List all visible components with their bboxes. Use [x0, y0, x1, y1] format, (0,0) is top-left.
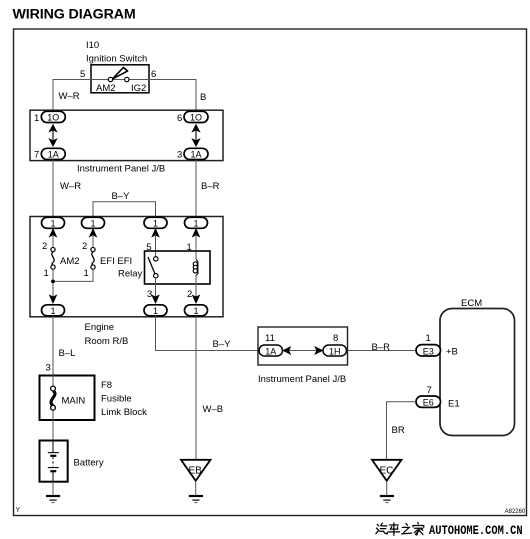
label Relay: [118, 269, 143, 280]
pin 3 of fusible link: [46, 363, 51, 374]
ground symbol EC: [380, 496, 394, 503]
svg-text:Ignition Switch: Ignition Switch: [86, 54, 147, 65]
switch contacts and lever: [108, 67, 129, 81]
wire EB to ground: [195, 481, 197, 495]
svg-text:W–B: W–B: [203, 404, 224, 415]
wire col C down then right to Instrument Panel J/B (B-Y): [156, 316, 259, 351]
svg-text:B: B: [200, 92, 206, 103]
pin 11: [265, 333, 275, 344]
svg-text:E6: E6: [423, 398, 434, 408]
svg-text:AM2: AM2: [60, 256, 80, 267]
pin 1 of relay: [187, 242, 192, 253]
junction block Instrument Panel J/B 2 box: [258, 327, 348, 365]
svg-text:1: 1: [50, 306, 55, 316]
arrow down col D: [193, 295, 200, 303]
svg-text:2: 2: [187, 289, 192, 300]
label +B: [446, 347, 458, 358]
svg-text:6: 6: [151, 69, 156, 80]
svg-text:1: 1: [153, 219, 158, 229]
wire switch pin6 to J/B connector 6 (B): [149, 80, 196, 113]
svg-text:11: 11: [265, 333, 275, 344]
fusible link MAIN symbol: [51, 376, 56, 421]
connector E3: [416, 345, 441, 357]
svg-text:B–R: B–R: [201, 181, 220, 192]
pin 1: [34, 113, 39, 124]
svg-text:1: 1: [90, 219, 95, 229]
pin 1 of AM2 fuse: [44, 268, 49, 279]
svg-text:1: 1: [193, 219, 198, 229]
svg-text:1: 1: [34, 113, 39, 124]
svg-text:1: 1: [153, 306, 158, 316]
relay coil: [193, 259, 198, 276]
svg-text:1: 1: [50, 219, 55, 229]
svg-text:I10: I10: [86, 40, 99, 51]
svg-text:1A: 1A: [190, 150, 201, 160]
svg-text:MAIN: MAIN: [62, 396, 86, 407]
internal link arrows 1A-1H: [283, 347, 322, 354]
arrow up col A: [50, 229, 57, 248]
wire fusible link to battery: [52, 420, 54, 441]
pin 3: [177, 150, 182, 161]
svg-text:E3: E3: [423, 346, 434, 356]
connector 1 (col D bottom): [185, 305, 208, 316]
svg-text:Y: Y: [16, 507, 21, 514]
connector 1A: [259, 345, 283, 357]
svg-text:B–L: B–L: [59, 348, 76, 359]
arrow down col C: [152, 295, 159, 303]
wire AM2 fuse bottom to junction: [52, 269, 54, 296]
connector 1 (col A top): [42, 217, 65, 228]
svg-text:1: 1: [187, 242, 192, 253]
svg-text:1: 1: [193, 306, 198, 316]
label Instrument Panel J/B: [258, 374, 346, 385]
svg-text:BR: BR: [392, 425, 405, 436]
connector 1 (col C bottom): [144, 305, 167, 316]
relay switch contacts: [148, 257, 158, 278]
svg-text:7: 7: [34, 150, 39, 161]
internal link arrow left (1O to 1A): [49, 125, 56, 146]
wire label B-Y: [213, 339, 232, 350]
fuse AM2: [51, 247, 55, 269]
pin 1: [426, 333, 431, 344]
junction block Instrument Panel J/B box: [30, 110, 223, 160]
label ECM: [461, 298, 482, 309]
pin 5: [80, 69, 85, 80]
ground symbol EB: [189, 496, 203, 503]
svg-text:E1: E1: [448, 399, 460, 410]
svg-text:2: 2: [82, 241, 87, 252]
svg-text:Room R/B: Room R/B: [85, 336, 129, 347]
connector 1 (col C top): [144, 217, 167, 228]
svg-text:B–R: B–R: [372, 342, 391, 353]
svg-text:1O: 1O: [47, 113, 59, 123]
wire 1H to ECM E3 (B-R): [348, 350, 417, 352]
label EFI EFI: [100, 256, 132, 267]
label AM2: [96, 83, 116, 94]
ground under battery: [46, 496, 60, 503]
svg-text:1: 1: [426, 333, 431, 344]
svg-text:EFI EFI: EFI EFI: [100, 256, 132, 267]
label AM2: [60, 256, 80, 267]
wire battery to ground: [52, 482, 54, 496]
svg-text:Limk Block: Limk Block: [101, 407, 147, 418]
svg-text:Battery: Battery: [74, 458, 104, 469]
svg-text:EB: EB: [189, 466, 203, 477]
svg-text:Fusible: Fusible: [101, 394, 132, 405]
connector 1 (col B top): [82, 217, 105, 228]
wire relay coil bottom to arrow: [195, 275, 197, 296]
arrow up col D: [193, 229, 200, 259]
label Battery: [74, 458, 104, 469]
pin 3 of relay: [147, 289, 152, 300]
fusible link block F8 box: [40, 376, 95, 421]
ECM box: [440, 309, 515, 436]
svg-text:B–Y: B–Y: [112, 191, 131, 202]
wire switch pin5 to J/B connector 1 (W-R): [53, 80, 91, 113]
svg-text:ECM: ECM: [461, 298, 482, 309]
wire B-Y jumper bracket: [93, 202, 156, 218]
pin 1 of EFI fuse: [84, 268, 89, 279]
svg-text:B–Y: B–Y: [213, 339, 232, 350]
svg-text:W–R: W–R: [59, 91, 80, 102]
svg-text:7: 7: [427, 385, 432, 396]
pin 2 of relay: [187, 289, 192, 300]
junction dot: [51, 280, 55, 284]
wire J/B 1A right down to Engine Room R/B (B-R): [195, 160, 197, 218]
svg-text:1: 1: [84, 268, 89, 279]
battery cells: [48, 441, 59, 482]
title WIRING DIAGRAM: [13, 7, 136, 23]
switch pin line: [91, 79, 149, 81]
wire label B-L: [59, 348, 76, 359]
svg-text:5: 5: [80, 69, 85, 80]
pin 8: [333, 333, 338, 344]
svg-text:WIRING DIAGRAM: WIRING DIAGRAM: [13, 7, 136, 23]
wire EFI fuse bottom to junction: [53, 269, 93, 281]
pin 2 of EFI fuse: [82, 241, 87, 252]
svg-text:Engine: Engine: [85, 322, 115, 333]
arrow up col B: [90, 229, 97, 248]
pin 5 of relay: [146, 242, 151, 253]
svg-text:AUTOHOME.COM.CN: AUTOHOME.COM.CN: [429, 523, 523, 538]
battery box: [40, 441, 68, 482]
svg-text:EC: EC: [380, 466, 394, 477]
wire label B-R: [372, 342, 391, 353]
svg-text:1A: 1A: [48, 150, 59, 160]
wire label W-R: [60, 181, 81, 192]
relay EFI Relay box: [145, 251, 211, 284]
arrow down col A: [50, 295, 57, 303]
label E1: [448, 399, 460, 410]
pin 6: [177, 113, 182, 124]
connector 1A right: [184, 148, 208, 159]
svg-text:3: 3: [46, 363, 51, 374]
svg-text:IG2: IG2: [131, 83, 146, 94]
svg-text:AM2: AM2: [96, 83, 116, 94]
wire label B-R: [201, 181, 220, 192]
wire label BR: [392, 425, 405, 436]
svg-text:W–R: W–R: [60, 181, 81, 192]
connector 1 (col D top): [185, 217, 208, 228]
wire label W-B: [203, 404, 224, 415]
svg-text:8: 8: [333, 333, 338, 344]
label A82260: [505, 509, 526, 515]
watermark autohome chinese 汽车之家 drawn as strokes: [376, 522, 424, 535]
pin 2 of AM2 fuse: [42, 241, 47, 252]
label Engine Room R/B: [85, 322, 129, 347]
label MAIN: [62, 396, 86, 407]
wire relay switch bottom to arrow: [155, 278, 157, 297]
wire col A down to fusible link block (B-L): [52, 316, 54, 376]
svg-text:Relay: Relay: [118, 269, 143, 280]
wire label B: [200, 92, 206, 103]
ground EB triangle: [181, 460, 211, 481]
label Instrument Panel J/B: [77, 164, 165, 175]
wire J/B 1A left down to Engine Room R/B (W-R): [52, 160, 54, 218]
connector 1O right: [184, 111, 208, 122]
pin 7: [427, 385, 432, 396]
svg-text:1O: 1O: [190, 113, 202, 123]
svg-text:A82260: A82260: [505, 509, 526, 515]
svg-text:3: 3: [177, 150, 182, 161]
connector 1A left: [41, 148, 65, 159]
switch SW1 ignition switch box: [91, 65, 149, 93]
arrow up col C: [152, 229, 159, 257]
connector E6: [416, 396, 441, 408]
ground EC triangle: [372, 460, 402, 481]
watermark autohome.com.cn: [429, 523, 523, 538]
wire label W-R: [59, 91, 80, 102]
label Y corner: [16, 507, 21, 514]
svg-text:+B: +B: [446, 347, 458, 358]
label IG2: [131, 83, 146, 94]
connector 1 (col A bottom): [42, 305, 65, 316]
wire E6 to EC ground (BR): [387, 402, 417, 460]
pin 7: [34, 150, 39, 161]
wire col D down to EB ground (W-B): [195, 316, 197, 460]
svg-text:1: 1: [44, 268, 49, 279]
svg-text:6: 6: [177, 113, 182, 124]
svg-text:Instrument Panel J/B: Instrument Panel J/B: [77, 164, 165, 175]
node I10 label: [86, 40, 147, 65]
internal link arrow right (1O to 1A): [192, 125, 199, 146]
connector 1H: [323, 345, 347, 357]
relay block Engine Room R/B box: [30, 217, 223, 317]
svg-text:Instrument Panel J/B: Instrument Panel J/B: [258, 374, 346, 385]
wire label B-Y: [112, 191, 131, 202]
connector 1O left: [41, 111, 65, 122]
svg-text:5: 5: [146, 242, 151, 253]
label F8 Fusible Limk Block: [101, 380, 147, 418]
fuse EFI: [91, 247, 95, 269]
wire EC to ground: [386, 481, 388, 495]
svg-text:1A: 1A: [265, 347, 276, 357]
pin 6: [151, 69, 156, 80]
svg-text:1H: 1H: [329, 347, 341, 357]
svg-text:F8: F8: [101, 380, 112, 391]
svg-text:2: 2: [42, 241, 47, 252]
